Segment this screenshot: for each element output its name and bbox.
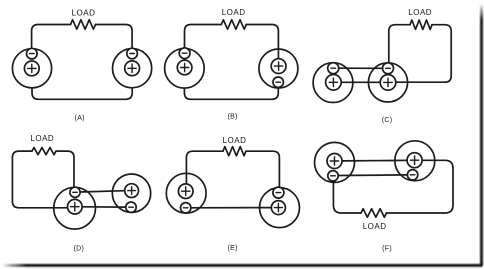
wire: load loop of figure D	[12, 151, 74, 208]
positive terminal of C1	[326, 75, 342, 91]
negative terminal of C1	[328, 63, 339, 74]
battery cell E2 (right)	[260, 187, 300, 228]
positive terminal of B2	[271, 59, 286, 74]
resistor LOAD (C)	[410, 20, 432, 29]
positive terminal of E2	[271, 201, 285, 215]
resistor LOAD (B)	[221, 20, 246, 29]
wire: top loop of figure B	[185, 25, 279, 59]
negative terminal of B1	[179, 48, 190, 59]
wire: positive link and load loop of figure F	[333, 160, 453, 213]
battery cell F1 (left, reversed)	[315, 142, 355, 182]
svg-text:(E): (E)	[227, 245, 237, 252]
wire: left-cell-negative to right-cell-positive (E)	[191, 207, 272, 209]
svg-text:(D): (D)	[73, 246, 84, 253]
negative terminal of D1	[70, 187, 80, 197]
positive terminal of F2	[407, 153, 422, 168]
wire: bottom return of figure A	[32, 88, 132, 100]
resistor LOAD (F)	[361, 209, 386, 218]
wire: positive-to-positive link (C)	[341, 81, 380, 83]
resistor LOAD (A)	[71, 20, 96, 29]
svg-text:LOAD: LOAD	[223, 136, 247, 145]
resistor LOAD (E)	[223, 147, 246, 156]
svg-text:LOAD: LOAD	[222, 8, 246, 17]
wire: bottom return of figure B	[184, 87, 278, 99]
svg-text:LOAD: LOAD	[408, 8, 432, 17]
battery cell A1 (left)	[12, 48, 51, 88]
svg-text:(C): (C)	[382, 117, 393, 124]
svg-text:LOAD: LOAD	[363, 222, 387, 231]
battery cell C1 (left)	[313, 63, 353, 103]
svg-text:(F): (F)	[382, 246, 392, 253]
positive terminal of A2	[125, 61, 140, 76]
positive terminal of D2	[125, 184, 139, 198]
negative terminal of E1	[181, 203, 191, 213]
battery cell A2 (right)	[113, 48, 152, 88]
negative terminal of F2	[407, 170, 417, 180]
battery cell E1 (left, reversed)	[166, 173, 206, 213]
battery cell D1 (center)	[54, 187, 96, 229]
positive terminal of B1	[177, 60, 192, 75]
resistor LOAD (D)	[32, 148, 56, 155]
wire: top loop of figure E	[186, 151, 279, 187]
wire: top loop of figure A	[32, 25, 133, 49]
negative terminal of A1	[27, 48, 38, 59]
wire: load loop of figure C	[389, 25, 451, 82]
svg-text:(B): (B)	[227, 113, 237, 120]
negative terminal of A2	[127, 48, 138, 59]
svg-text:LOAD: LOAD	[30, 134, 54, 143]
negative terminal of E2	[273, 187, 284, 198]
wire: negative-to-negative link (F)	[338, 174, 407, 177]
wire: center-cell-positive to right-cell-negative (D)	[82, 206, 126, 208]
battery cell F2 (right, reversed)	[395, 141, 435, 181]
positive terminal of C2	[380, 75, 396, 91]
battery cell D2 (right, reversed)	[112, 174, 150, 212]
negative terminal of F1	[328, 171, 338, 181]
battery cell C2 (right)	[368, 63, 407, 102]
negative terminal of C2	[383, 63, 394, 74]
positive terminal of A1	[24, 61, 39, 76]
svg-text:(A): (A)	[75, 115, 85, 122]
battery cell B2 (right, reversed)	[259, 49, 298, 88]
positive terminal of D1	[68, 199, 83, 214]
negative terminal of B2	[273, 77, 283, 87]
svg-text:LOAD: LOAD	[72, 8, 96, 17]
positive terminal of F1	[327, 154, 342, 169]
positive terminal of E1	[178, 184, 193, 199]
negative terminal of D2	[126, 202, 136, 212]
decorative scan border: bottom shadow line	[2, 264, 482, 267]
wire: negative-to-negative link (C)	[339, 67, 383, 69]
battery cell B1 (left)	[165, 48, 205, 88]
decorative scan border: right shadow line	[480, 4, 483, 266]
wire: center-cell-negative to right-cell-positive (D)	[80, 191, 125, 192]
